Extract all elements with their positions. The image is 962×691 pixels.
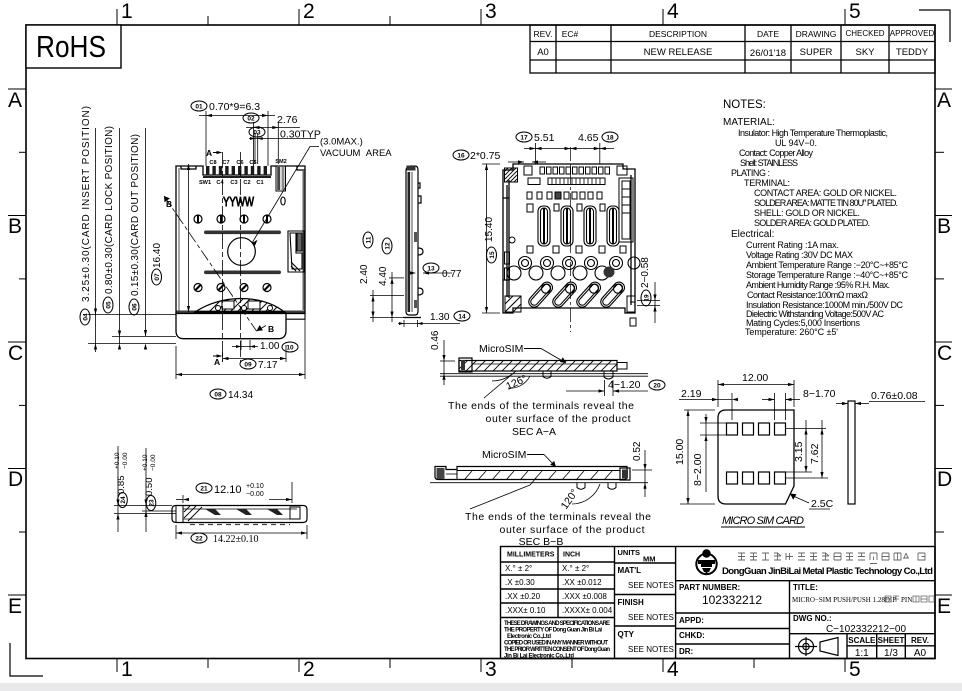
2.5C (791, 495, 809, 503)
svg-text:1: 1 (121, 658, 133, 681)
svg-text:PART NUMBER:: PART NUMBER: (679, 583, 740, 592)
svg-text:NOTES:: NOTES: (723, 99, 766, 111)
svg-text:(3.0MAX.): (3.0MAX.) (320, 137, 363, 148)
svg-text:+0.10: +0.10 (246, 483, 264, 490)
svg-text:C4: C4 (216, 180, 224, 186)
svg-text:12: 12 (385, 242, 392, 250)
svg-text:2: 2 (303, 0, 315, 23)
svg-text:FINISH: FINISH (618, 598, 644, 607)
svg-text:QTY: QTY (618, 630, 635, 639)
bumps (543, 371, 551, 378)
svg-text:22: 22 (195, 536, 203, 543)
svg-text:Contact: Copper Alloy: Contact: Copper Alloy (739, 148, 814, 158)
top-left hatched block (505, 168, 518, 182)
caption (465, 511, 651, 548)
svg-text:Ambient Humidity Range :95% R.: Ambient Humidity Range :95% R.H. Max. (746, 280, 890, 290)
svg-text:NEW RELEASE: NEW RELEASE (644, 47, 713, 58)
tray (176, 313, 286, 339)
svg-text:E: E (937, 595, 951, 618)
bottom-left hatched block (505, 296, 521, 312)
svg-text:A: A (206, 148, 212, 158)
svg-text:18: 18 (606, 135, 614, 142)
svg-text:1.00: 1.00 (260, 341, 280, 352)
dim 15.00 (684, 409, 715, 411)
disclaimer (504, 621, 610, 660)
zone ticks top/bottom (117, 9, 845, 672)
dim 17: 5.51 (516, 132, 532, 142)
big circle (228, 238, 256, 266)
svg-text:10: 10 (286, 345, 294, 352)
svg-text:1/3: 1/3 (884, 648, 898, 659)
centerline (570, 147, 572, 332)
svg-text:0.80±0.30(CARD LOCK POSITION): 0.80±0.30(CARD LOCK POSITION) (104, 126, 115, 294)
svg-text:DRAWING: DRAWING (796, 29, 837, 39)
svg-text:2.76: 2.76 (277, 114, 298, 126)
svg-text:COPIED OR USED IN ANY MANNER W: COPIED OR USED IN ANY MANNER WITHOUT (504, 641, 608, 647)
svg-text:CHKD:: CHKD: (679, 631, 705, 640)
svg-text:UNITS: UNITS (618, 548, 641, 557)
svg-text:SEE NOTES: SEE NOTES (628, 645, 674, 654)
svg-text:C6: C6 (236, 160, 243, 166)
svg-text:1: 1 (121, 0, 133, 23)
svg-text:DWG NO.:: DWG NO.: (793, 614, 832, 623)
small 0 mark (281, 197, 285, 205)
svg-text:−0.00: −0.00 (122, 452, 129, 469)
svg-text:08: 08 (214, 392, 222, 399)
svg-text:REV.: REV. (533, 29, 552, 39)
svg-text:B: B (268, 324, 274, 334)
svg-text:15.40: 15.40 (484, 217, 495, 242)
svg-text:B: B (937, 215, 951, 238)
connector body outline (176, 166, 305, 313)
sec B-B (430, 441, 652, 548)
svg-text:SEC B−B: SEC B−B (519, 536, 564, 548)
svg-text:E: E (8, 595, 22, 618)
bumps (577, 483, 585, 489)
dim 13: 0.77 (423, 272, 452, 274)
svg-text:MATERIAL:: MATERIAL: (723, 117, 775, 128)
dim 09: 7.17 (223, 345, 287, 362)
svg-text:05: 05 (106, 301, 113, 309)
svg-text:Ambient Temperature Range :−20: Ambient Temperature Range :−20°C~+85°C (746, 260, 909, 270)
rear view (453, 132, 660, 332)
svg-text:.XXX± 0.10: .XXX± 0.10 (505, 606, 546, 615)
svg-text:A: A (937, 89, 951, 112)
svg-text:24: 24 (120, 496, 127, 504)
svg-text:7.17: 7.17 (258, 360, 278, 371)
front view (80, 101, 392, 401)
dim 3.15 (805, 420, 807, 472)
svg-text:PIN: PIN (901, 596, 912, 604)
svg-text:2*0.75: 2*0.75 (470, 150, 501, 162)
svg-text:MicroSIM: MicroSIM (482, 449, 526, 461)
dim 12.00 (717, 380, 719, 407)
NOTES block (723, 99, 909, 337)
pin base line (203, 176, 271, 178)
chinese company name drawn as glyph boxes (738, 553, 925, 564)
svg-text:3: 3 (485, 658, 497, 681)
dome with hatch (195, 299, 285, 317)
svg-text:A0: A0 (914, 648, 927, 659)
4 vertical terminals (538, 206, 619, 246)
svg-text:MM: MM (643, 555, 656, 564)
svg-text:5: 5 (849, 0, 861, 23)
screw circles row2 (194, 284, 271, 292)
section line A (vertical) (223, 152, 241, 362)
section line B diagonal (164, 196, 266, 331)
dim 7.62 (821, 420, 823, 478)
tolerance table grid (501, 547, 936, 659)
zone numbers (121, 0, 861, 681)
leader (470, 485, 530, 509)
small squares between terminals (527, 204, 626, 253)
svg-text:outer surface of the product: outer surface of the product (500, 524, 645, 536)
side view base ticks (403, 317, 421, 319)
svg-text:SOLDER AREA: GOLD PLATED.: SOLDER AREA: GOLD PLATED. (754, 218, 870, 228)
dim 15: 15.40 (486, 164, 488, 313)
svg-text:C8: C8 (209, 160, 216, 166)
svg-text:Insulator: High Temperature Th: Insulator: High Temperature Thermoplasti… (738, 128, 888, 138)
svg-text:5: 5 (849, 658, 861, 681)
svg-text:SOLDER AREA: MATTE TIN 80U″ P: SOLDER AREA: MATTE TIN 80U″ PLATED. (754, 198, 898, 208)
svg-text:SW1: SW1 (199, 180, 211, 186)
hatched strip (455, 358, 631, 373)
svg-text:21: 21 (200, 486, 208, 493)
terminal pins top (206, 166, 267, 176)
svg-text:11: 11 (366, 236, 373, 243)
svg-text:01: 01 (195, 104, 203, 111)
dim 11: 2.40 (372, 290, 374, 322)
svg-text:0.15±0.30(CARD OUT POSITION): 0.15±0.30(CARD OUT POSITION) (130, 134, 141, 296)
dim 03: 0.30TYP (249, 133, 316, 164)
svg-text:.XX ±0.20: .XX ±0.20 (505, 592, 541, 601)
svg-text:SHEET: SHEET (878, 636, 905, 645)
svg-text:Storage Temperature Range :−40: Storage Temperature Range :−40°C~+85°C (746, 270, 909, 280)
svg-text:02: 02 (247, 116, 255, 123)
svg-text:0.70*9=6.3: 0.70*9=6.3 (209, 101, 260, 113)
svg-text:X.° ± 2°: X.° ± 2° (562, 564, 589, 573)
dim 08: 14.34 (176, 318, 305, 379)
svg-text:RoHS: RoHS (36, 29, 106, 64)
svg-text:.X ±0.30: .X ±0.30 (505, 578, 535, 587)
dim 02: 2.76 (246, 122, 300, 166)
dim 12: 4.40 (391, 272, 393, 322)
svg-text:07: 07 (154, 273, 161, 281)
svg-text:Jin Bi Lai Electronic Co.,Ltd: Jin Bi Lai Electronic Co.,Ltd (504, 654, 574, 660)
shell right edge shading (303, 170, 305, 310)
pads row1 (727, 423, 786, 484)
hook details (205, 509, 283, 515)
bar 1 (204, 231, 281, 235)
svg-text:THE PROPERTY OF Dong Guan Jin: THE PROPERTY OF Dong Guan Jin Bi Lai (504, 628, 602, 634)
svg-text:4−1.20: 4−1.20 (608, 379, 641, 391)
svg-text:The ends of the terminals reve: The ends of the terminals reveal the (448, 400, 634, 412)
svg-text:MICRO−SIM PUSH/PUSH 1.28DIP: MICRO−SIM PUSH/PUSH 1.28DIP (792, 596, 896, 604)
svg-text:.XX ±0.012: .XX ±0.012 (562, 578, 602, 587)
svg-text:MILLIMETERS: MILLIMETERS (507, 552, 555, 559)
svg-text:3.25±0.30(CARD INSERT POSITION: 3.25±0.30(CARD INSERT POSITION) (81, 106, 92, 302)
strip outline (172, 506, 307, 523)
bottom gray strip (0, 683, 962, 691)
svg-text:17: 17 (520, 135, 528, 142)
svg-text:C5: C5 (249, 160, 256, 166)
svg-text:20: 20 (653, 383, 661, 390)
SM2 pin (276, 166, 286, 191)
svg-text:EC#: EC# (562, 29, 579, 39)
dim 07: 16.40 (188, 164, 190, 312)
svg-text:Temperature: 260°C ±5': Temperature: 260°C ±5' (745, 327, 838, 337)
circles rows (507, 257, 640, 281)
svg-text:2: 2 (303, 658, 315, 681)
dims 04 05 06 vertical texts (81, 106, 141, 302)
svg-text:Shell: STAINLESS: Shell: STAINLESS (740, 158, 798, 168)
sec B-B (0, 0, 1, 1)
side view (359, 166, 470, 328)
svg-text:DongGuan JinBiLai Metal Plasti: DongGuan JinBiLai Metal Plastic Technolo… (722, 566, 933, 577)
svg-text:8−1.70: 8−1.70 (803, 388, 836, 400)
svg-text:C3: C3 (230, 180, 237, 186)
svg-text:16.40: 16.40 (152, 243, 163, 268)
svg-text:TERMINAL:: TERMINAL: (744, 178, 790, 188)
dim 20: 4-1.20 (604, 380, 606, 396)
svg-text:SEE NOTES: SEE NOTES (628, 613, 674, 622)
svg-text:C2: C2 (243, 180, 250, 186)
svg-text:1.30: 1.30 (430, 312, 450, 323)
svg-text:16: 16 (457, 153, 465, 160)
svg-text:15: 15 (489, 251, 496, 259)
revision table (530, 25, 935, 73)
svg-text:INCH: INCH (563, 552, 580, 559)
bottom view (114, 446, 307, 545)
left small rects (505, 252, 510, 264)
right ext lines (786, 428, 826, 430)
svg-text:outer surface of the product: outer surface of the product (486, 413, 631, 425)
striped bar (528, 178, 605, 185)
svg-text:A0: A0 (537, 47, 549, 58)
side profile body (406, 166, 423, 315)
title block (501, 547, 936, 660)
zone ticks left/right (8, 89, 952, 595)
dim 10: 1.00 (232, 340, 258, 350)
svg-text:4.40: 4.40 (378, 266, 389, 286)
rear body outline (503, 164, 635, 313)
svg-text:0.77: 0.77 (442, 269, 462, 280)
part/title cells (676, 581, 935, 659)
dim 01: 0.70*9=6.3 (199, 111, 275, 166)
svg-text:−0.00: −0.00 (246, 491, 264, 498)
svg-text:3.15: 3.15 (793, 441, 805, 462)
dashed bottom (190, 524, 290, 526)
svg-text:14: 14 (458, 314, 466, 321)
company band (676, 580, 935, 582)
A arrows top/bottom (213, 152, 217, 154)
svg-text:PLATING :: PLATING : (731, 168, 770, 178)
svg-text:VACUUM AREA: VACUUM AREA (320, 148, 392, 159)
svg-text:2.19: 2.19 (681, 388, 702, 400)
svg-text:D: D (937, 468, 952, 491)
svg-text:UL 94V−0.: UL 94V−0. (775, 138, 817, 148)
svg-text:D: D (8, 468, 23, 491)
ext lines for 11/12 (370, 295, 404, 297)
svg-text:.XXXX± 0.004: .XXXX± 0.004 (562, 606, 613, 615)
svg-text:B: B (8, 215, 22, 238)
svg-text:DESCRIPTION: DESCRIPTION (649, 29, 707, 39)
base lines (440, 373, 648, 375)
svg-text:0.46: 0.46 (430, 330, 441, 350)
svg-text:Contact Resistance:100mΩ maxΩ: Contact Resistance:100mΩ maxΩ (747, 290, 868, 300)
svg-text:SEC A−A: SEC A−A (512, 426, 556, 438)
dim lines 04 05 06 (88, 128, 176, 352)
svg-text:DR:: DR: (679, 647, 693, 656)
svg-text:06: 06 (132, 303, 139, 311)
svg-text:CHECKED: CHECKED (845, 29, 884, 38)
svg-text:7.62: 7.62 (809, 443, 821, 464)
svg-text:SHELL: GOLD OR NICKEL.: SHELL: GOLD OR NICKEL. (754, 208, 860, 218)
svg-text:−0.00: −0.00 (150, 454, 157, 471)
inner lines (183, 508, 297, 510)
svg-text:B: B (166, 199, 172, 209)
svg-text:0.52: 0.52 (632, 441, 643, 461)
svg-text:SKY: SKY (855, 47, 875, 58)
pin labels (199, 159, 287, 186)
dim 8-2.00 (700, 422, 727, 424)
svg-text:The ends of the terminals reve: The ends of the terminals reveal the (465, 511, 651, 523)
svg-text:14.34: 14.34 (228, 390, 253, 401)
svg-text:YYWW: YYWW (223, 194, 255, 209)
card outline (718, 410, 794, 504)
svg-text:2−0.58: 2−0.58 (640, 257, 651, 288)
RoHS box (26, 25, 121, 68)
svg-text:C: C (937, 342, 952, 365)
zone letters (8, 89, 952, 618)
screw circles row1 (194, 215, 271, 223)
svg-text:TITLE:: TITLE: (793, 583, 818, 592)
sec A-A (430, 330, 665, 438)
svg-text:03: 03 (253, 130, 261, 137)
svg-text:MICRO SIM CARD: MICRO SIM CARD (722, 515, 804, 527)
units col (618, 548, 674, 654)
logo (696, 549, 716, 574)
right tall rail (619, 178, 633, 242)
svg-text:+0.10: +0.10 (142, 454, 149, 471)
dim 21: 12.10 (196, 483, 212, 493)
svg-text:.XXX ±0.008: .XXX ±0.008 (562, 592, 607, 601)
svg-text:Current Rating :1A max.: Current Rating :1A max. (746, 240, 839, 250)
top pin row (524, 166, 627, 175)
svg-text:C: C (8, 342, 23, 365)
svg-text:Voltage Rating :30V DC MAX: Voltage Rating :30V DC MAX (746, 250, 853, 260)
svg-text:MAT'L: MAT'L (618, 566, 642, 575)
svg-text:09: 09 (244, 362, 252, 369)
svg-text:SUPER: SUPER (800, 47, 833, 58)
svg-text:THESE DRAWINGS AND SPECIFICATI: THESE DRAWINGS AND SPECIFICATIONS ARE (504, 621, 610, 627)
svg-text:+0.10: +0.10 (114, 452, 121, 469)
projection symbol (795, 637, 838, 656)
sim card (674, 372, 925, 527)
svg-text:102332212: 102332212 (702, 593, 762, 607)
svg-text:Electronic Co.,Ltd: Electronic Co.,Ltd (507, 634, 551, 640)
svg-text:A: A (8, 89, 22, 112)
leader to The ends text (484, 371, 516, 398)
svg-text:SM2: SM2 (275, 159, 287, 165)
dim 16: 2*0.75 (453, 150, 469, 160)
dim 22: 14.22 (175, 525, 177, 539)
strip (435, 467, 630, 481)
card side bar (848, 401, 855, 504)
svg-text:C−102332212−00: C−102332212−00 (826, 624, 907, 635)
svg-text:3: 3 (485, 0, 497, 23)
svg-text:C7: C7 (222, 160, 229, 166)
svg-text:A: A (214, 357, 220, 367)
svg-text:THE PRIOR WRITTEN CONSENT OF D: THE PRIOR WRITTEN CONSENT OF Dong Guan (504, 647, 610, 653)
svg-text:12.10: 12.10 (214, 484, 242, 496)
right latch (288, 231, 304, 272)
120 arc + label (572, 484, 600, 504)
svg-text:SEE NOTES: SEE NOTES (628, 581, 674, 590)
seat line (176, 310, 305, 312)
svg-text:8−2.00: 8−2.00 (692, 453, 704, 486)
svg-text:X.° ± 2°: X.° ± 2° (505, 564, 532, 573)
svg-text:2.40: 2.40 (359, 264, 370, 284)
svg-text:13: 13 (427, 266, 435, 273)
svg-text:4: 4 (667, 658, 679, 681)
svg-text:26/01'18: 26/01'18 (750, 48, 786, 59)
dim 14: 1.30 (403, 320, 405, 327)
svg-text:12.00: 12.00 (742, 372, 768, 384)
4 slanted terminals (527, 280, 627, 310)
svg-text:REV.: REV. (911, 636, 929, 645)
svg-text:0.30TYP: 0.30TYP (280, 129, 321, 141)
126 arc (492, 371, 516, 381)
caption (448, 400, 634, 438)
svg-text:CONTACT AREA: GOLD OR NICKEL.: CONTACT AREA: GOLD OR NICKEL. (754, 188, 897, 198)
svg-text:4: 4 (667, 0, 679, 23)
tolerance texts (505, 552, 613, 616)
svg-text:4.65: 4.65 (578, 132, 599, 144)
svg-text:APPROVED: APPROVED (890, 29, 935, 38)
svg-text:5.51: 5.51 (534, 132, 555, 144)
svg-text:MicroSIM: MicroSIM (479, 343, 523, 355)
small squares row (527, 192, 602, 199)
svg-text:Electrical:: Electrical: (731, 229, 774, 240)
svg-text:1:1: 1:1 (855, 648, 869, 659)
svg-text:C1: C1 (256, 180, 263, 186)
svg-text:APPD:: APPD: (679, 616, 704, 625)
base line (430, 482, 648, 484)
bar 2 (204, 271, 281, 275)
svg-text:15.00: 15.00 (674, 439, 686, 465)
left hatch (184, 506, 202, 521)
svg-text:2.5C: 2.5C (811, 498, 834, 510)
svg-text:0.76±0.08: 0.76±0.08 (871, 390, 918, 402)
svg-text:14.22±0.10: 14.22±0.10 (213, 534, 259, 545)
svg-text:DATE: DATE (757, 29, 779, 39)
bottom right step (627, 296, 635, 312)
svg-text:SCALE: SCALE (848, 636, 876, 645)
svg-text:TEDDY: TEDDY (896, 47, 929, 58)
